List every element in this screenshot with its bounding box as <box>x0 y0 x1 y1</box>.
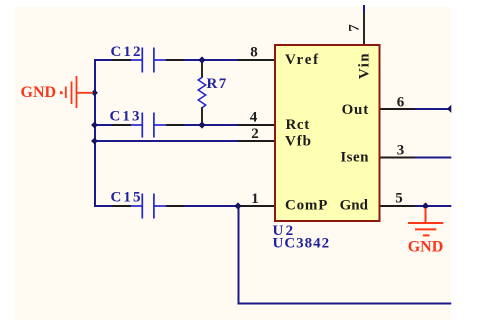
svg-text:6: 6 <box>397 95 405 111</box>
svg-text:Gnd: Gnd <box>340 198 369 214</box>
svg-text:GND: GND <box>408 239 444 256</box>
svg-text:C15: C15 <box>111 190 143 206</box>
svg-text:Vref: Vref <box>285 52 320 68</box>
svg-text:C13: C13 <box>110 109 142 125</box>
svg-text:4: 4 <box>250 110 258 126</box>
svg-text:C12: C12 <box>111 44 143 60</box>
svg-text:1: 1 <box>251 191 259 207</box>
svg-text:UC3842: UC3842 <box>273 236 331 252</box>
svg-text:Vfb: Vfb <box>285 134 312 150</box>
svg-text:5: 5 <box>395 191 403 207</box>
svg-text:8: 8 <box>250 45 258 61</box>
svg-text:GND: GND <box>21 84 57 101</box>
svg-text:Out: Out <box>342 102 369 118</box>
svg-text:ComP: ComP <box>285 198 328 214</box>
svg-text:2: 2 <box>251 126 259 142</box>
svg-text:Isen: Isen <box>340 150 369 166</box>
svg-text:Vin: Vin <box>357 52 373 79</box>
svg-text:R7: R7 <box>207 76 228 92</box>
svg-text:Rct: Rct <box>286 117 310 133</box>
svg-text:7: 7 <box>347 24 363 32</box>
svg-text:3: 3 <box>397 143 405 159</box>
